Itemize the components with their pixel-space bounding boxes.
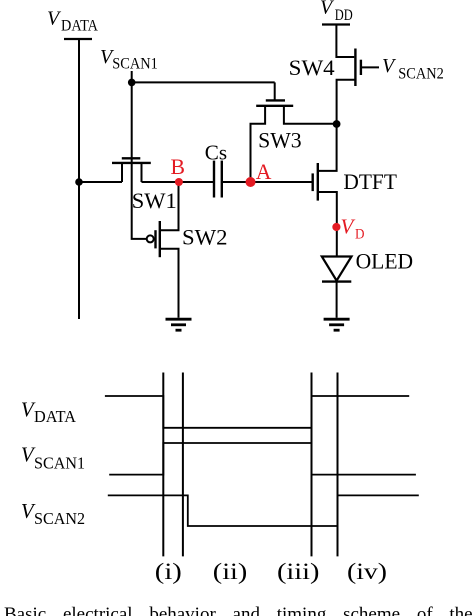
- wire SW4 gate lead: [361, 66, 379, 68]
- label V_DATA top: [47, 7, 98, 34]
- wire SW3 source to junction: [284, 106, 337, 124]
- wire main row left: [79, 181, 122, 183]
- label V_SCAN2 right: [382, 55, 444, 82]
- svg-text:D: D: [355, 226, 365, 242]
- diode OLED triangle: [322, 257, 352, 281]
- phase line iv: [337, 373, 339, 557]
- svg-text:B: B: [171, 155, 185, 179]
- svg-text:SCAN1: SCAN1: [112, 56, 158, 73]
- diode OLED cathode bar: [322, 280, 351, 282]
- transistor SW2 gate bubble: [147, 235, 154, 242]
- label V_SCAN1 top: [100, 46, 158, 72]
- capacitor Cs right plate: [221, 161, 223, 198]
- transistor DTFT channel bar: [317, 163, 319, 201]
- wire SW2 source to ground: [160, 249, 179, 318]
- node junction dot SW4 source: [333, 120, 341, 128]
- wire SW4 source: [337, 80, 356, 124]
- transistor SW2 channel bar: [159, 221, 161, 257]
- node junction dot V_DATA row: [75, 178, 83, 186]
- svg-text:V: V: [320, 0, 335, 19]
- timing diagram: [105, 373, 419, 557]
- svg-text:V: V: [382, 55, 397, 77]
- svg-text:DATA: DATA: [34, 407, 77, 426]
- svg-text:SW3: SW3: [258, 129, 302, 153]
- label V_DATA timing: [21, 398, 77, 426]
- svg-text:SCAN1: SCAN1: [34, 453, 85, 472]
- label V_DD: [320, 0, 353, 24]
- svg-text:DD: DD: [335, 7, 353, 24]
- svg-text:A: A: [256, 160, 272, 184]
- wire SW2 drain to node B: [160, 182, 179, 230]
- transistor SW1 channel bar: [112, 162, 151, 164]
- label V_SCAN2 timing: [21, 500, 85, 528]
- svg-text:SW4: SW4: [289, 56, 335, 80]
- ground OLED: [324, 319, 350, 330]
- wire SW1 to capacitor: [142, 181, 214, 183]
- transistor SW2 gate bar: [154, 230, 156, 248]
- svg-text:Cs: Cs: [205, 143, 227, 165]
- waveform V_DATA: [105, 396, 409, 428]
- waveform V_SCAN1: [109, 443, 416, 475]
- node A dot: [246, 177, 256, 187]
- node V_D dot: [332, 223, 340, 231]
- transistor SW3 channel bar: [256, 105, 293, 107]
- wire SW1 source lead: [121, 163, 123, 182]
- phase line i: [162, 373, 164, 557]
- wire SW1 drain lead: [141, 163, 143, 182]
- svg-text:SCAN2: SCAN2: [34, 509, 85, 528]
- wire SW4 drain: [336, 25, 354, 58]
- svg-text:(iii): (iii): [277, 559, 320, 584]
- svg-text:SCAN2: SCAN2: [398, 65, 444, 82]
- svg-text:Basic electrical behavior and: Basic electrical behavior and timing sch…: [4, 604, 473, 616]
- wire V_SCAN1 horizontal: [132, 71, 275, 82]
- phase line ii: [182, 373, 184, 557]
- svg-text:DTFT: DTFT: [343, 170, 397, 194]
- wire capacitor to DTFT gate: [222, 181, 313, 183]
- transistor SW3 gate bar: [266, 99, 285, 101]
- label V_SCAN1 timing: [21, 444, 85, 473]
- svg-text:V: V: [341, 215, 356, 239]
- svg-text:(iv): (iv): [347, 559, 387, 584]
- svg-text:(i): (i): [155, 559, 182, 584]
- svg-text:V: V: [47, 7, 62, 29]
- svg-text:DATA: DATA: [61, 18, 98, 35]
- wire DTFT source: [318, 192, 337, 257]
- V_DD terminal bar: [322, 23, 350, 25]
- transistor SW4 gate bar: [360, 60, 362, 75]
- ground SW2: [166, 319, 192, 330]
- node B dot: [175, 178, 183, 186]
- transistor SW4 channel bar: [354, 49, 356, 87]
- phase line iii: [311, 373, 313, 557]
- transistor SW1 gate bar: [122, 157, 141, 159]
- svg-text:SW1: SW1: [132, 189, 177, 213]
- wire SW3 gate lead: [274, 82, 276, 100]
- V_DATA terminal bar: [64, 38, 92, 40]
- wire OLED to ground: [336, 282, 338, 318]
- svg-text:SW2: SW2: [182, 226, 228, 250]
- wire V_DATA vertical: [78, 39, 80, 319]
- waveform V_SCAN2: [108, 495, 419, 526]
- svg-text:OLED: OLED: [356, 250, 414, 274]
- transistor DTFT gate bar: [312, 173, 314, 191]
- wire SW3 drain to node A: [251, 106, 266, 182]
- wire gate line SW1-SW2: [132, 82, 147, 239]
- label V_D: [341, 215, 365, 243]
- capacitor Cs left plate: [213, 161, 215, 198]
- svg-text:(ii): (ii): [213, 559, 248, 584]
- node junction dot V_SCAN1: [128, 79, 136, 87]
- wire junction to DTFT drain: [318, 124, 337, 171]
